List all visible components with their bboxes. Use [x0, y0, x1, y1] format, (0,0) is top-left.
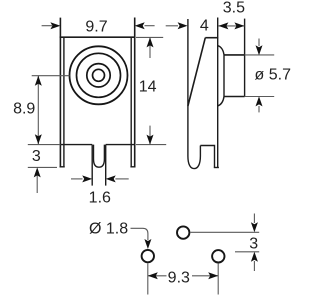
center pin left edge / extension [91, 145, 93, 186]
front view outer right wall / extension line [134, 18, 136, 168]
dim 3 right top arrow (down) [253, 214, 255, 224]
svg-text:8.9: 8.9 [13, 100, 35, 117]
dim 8.9 top extension [32, 75, 70, 77]
circle second [77, 53, 121, 97]
svg-text:4: 4 [200, 17, 209, 34]
barrel right face / extension [244, 19, 246, 97]
dim 4 left arrow [166, 25, 178, 27]
dim 14 line upper [149, 37, 151, 58]
dim 9.7 left arrow [42, 25, 52, 27]
center pin right edge / extension [105, 145, 107, 186]
svg-text:9.7: 9.7 [85, 18, 107, 35]
dim 3 left arrow (up) [36, 170, 38, 193]
left leg bottom cap [60, 166, 65, 168]
dim 3 right bottom line [235, 251, 259, 253]
front bottom edge left extension [28, 144, 61, 146]
svg-text:1.6: 1.6 [89, 190, 111, 207]
circle outer [70, 46, 128, 104]
dim 5.7 bottom arrow (up) [258, 106, 260, 112]
dim 5.7 bottom extension [245, 96, 275, 98]
dim 9.3 line right [192, 275, 218, 277]
barrel left edge [223, 55, 225, 97]
svg-text:3: 3 [249, 235, 258, 252]
svg-text:3.5: 3.5 [223, 0, 245, 16]
svg-text:Ø 1.8: Ø 1.8 [89, 221, 128, 238]
dim 14 bottom extension [136, 144, 166, 146]
front view inner right wall [130, 37, 132, 167]
front view top edge [60, 36, 136, 38]
dim 1.8 leader [131, 228, 148, 240]
side view right leg cap [214, 167, 219, 169]
svg-text:ø 5.7: ø 5.7 [255, 67, 292, 84]
barrel bottom edge [224, 96, 245, 98]
dim 3.5 double arrow [218, 25, 244, 27]
leg bottom left extension [28, 166, 57, 168]
right leg bottom cap [130, 166, 135, 168]
pad hole A [177, 226, 189, 238]
front view outer left wall / extension line [59, 18, 61, 168]
front view inner left wall [63, 37, 65, 167]
svg-text:14: 14 [139, 79, 157, 96]
dim 8.9 line [37, 76, 39, 145]
dim 5.7 top arrow (down) [258, 39, 260, 47]
side view right edge / extension [217, 18, 219, 168]
dim 5.7 top extension [245, 54, 275, 56]
dim 3 right bottom arrow (up) [253, 261, 255, 271]
svg-text:3: 3 [32, 148, 41, 165]
dim 1.6 right arrow [115, 178, 128, 180]
front view bottom edge left part [60, 144, 92, 146]
dim 14 line lower [149, 126, 151, 145]
barrel bottom fillet [218, 97, 224, 107]
circle third [87, 64, 110, 87]
dim 9.3 right extension [217, 263, 219, 294]
side view left leg rounded tip [188, 156, 201, 169]
circle inner [93, 69, 105, 81]
barrel top fillet [218, 46, 224, 55]
dim 1.6 left arrow [71, 178, 83, 180]
side view right leg inner edge and notch [200, 146, 214, 168]
side view slanted face [188, 38, 205, 106]
center pin U slot [94, 145, 105, 168]
front view bottom edge right part [106, 144, 135, 146]
dim 9.3 left extension [147, 263, 149, 294]
side view top edge [205, 37, 218, 39]
svg-text:9.3: 9.3 [168, 269, 190, 286]
dim 9.7 right arrow [145, 25, 155, 27]
pad hole B [142, 250, 154, 262]
dim 3 right top line [190, 231, 259, 233]
dim 14 top extension [136, 36, 163, 38]
barrel top edge [224, 54, 245, 56]
dim 9.3 line left [148, 275, 167, 277]
side view left edge / extension [187, 19, 189, 156]
pad hole C [212, 250, 224, 262]
side view left leg right edge [199, 146, 201, 157]
